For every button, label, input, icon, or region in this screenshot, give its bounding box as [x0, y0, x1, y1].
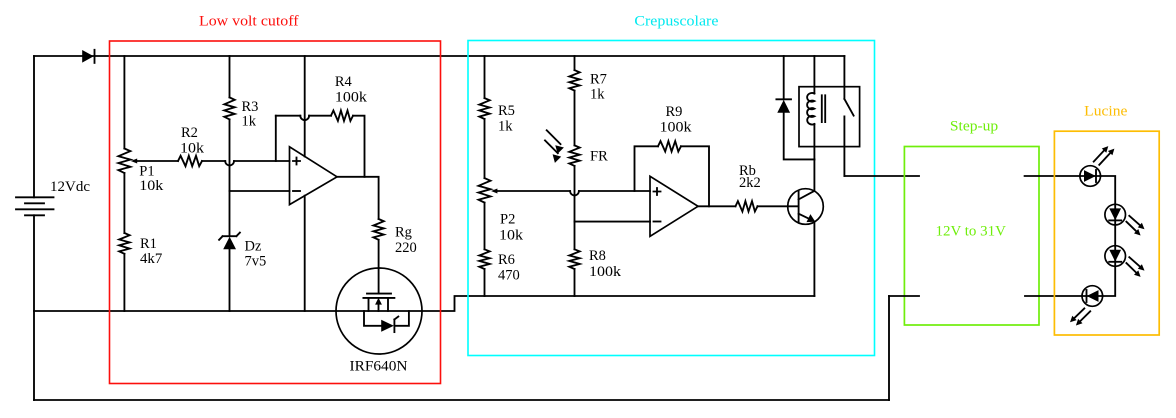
svg-text:4k7: 4k7: [140, 251, 162, 267]
svg-text:12Vdc: 12Vdc: [50, 179, 90, 195]
wire R5 to P2: [484, 119, 486, 178]
transistor M1 IRF640N: [336, 268, 422, 375]
svg-text:Low volt cutoff: Low volt cutoff: [199, 13, 299, 29]
svg-text:2k2: 2k2: [739, 175, 761, 191]
photoresistor FR: [545, 130, 608, 166]
resistor R2: [178, 125, 205, 166]
svg-text:IRF640N: IRF640N: [350, 359, 409, 375]
wire U2 output: [698, 205, 736, 207]
wire step-up return drop: [888, 296, 890, 400]
resistor R1: [119, 233, 162, 267]
wire Dz bottom lead: [229, 249, 231, 311]
wire LD2 to LD3: [1114, 225, 1116, 246]
svg-text:10k: 10k: [180, 141, 205, 157]
svg-text:7v5: 7v5: [245, 254, 267, 270]
wire inverting input node: [230, 190, 290, 192]
svg-text:R6: R6: [498, 252, 515, 268]
resistor R7: [569, 70, 607, 102]
block Step-up: [904, 147, 1039, 326]
resistor R9: [658, 104, 692, 152]
wire R2 to opamp noninverting input with hop: [202, 160, 290, 162]
transistor Q1: [788, 189, 824, 225]
wire R4 left segment with hop: [276, 115, 331, 117]
wire P2 wiper to opamp with hop: [496, 190, 650, 192]
resistor R5: [479, 98, 515, 134]
op-amp U2: [650, 176, 698, 236]
wire top supply bus: [34, 55, 844, 57]
block Crepuscolare: [468, 41, 875, 356]
potentiometer P1: [118, 149, 164, 195]
wire R7 top lead: [574, 56, 576, 70]
wire LD3 to LD4: [1103, 266, 1116, 296]
wire U1 positive supply: [304, 56, 306, 156]
wire collector lead: [813, 159, 815, 191]
wire U1 negative supply: [304, 196, 306, 311]
svg-text:FR: FR: [590, 148, 608, 164]
resistor Rb: [736, 163, 761, 212]
svg-text:1k: 1k: [590, 87, 605, 103]
wire R3 top lead: [229, 56, 231, 97]
wire relay output: [844, 175, 919, 177]
svg-text:220: 220: [395, 240, 417, 256]
wire battery positive lead: [33, 56, 35, 197]
block Low volt cutoff: [110, 41, 441, 384]
zener Dz: [219, 233, 266, 270]
wire P1 top lead: [123, 56, 125, 149]
wire R9 feedback tap: [635, 146, 659, 191]
svg-text:R5: R5: [498, 103, 515, 119]
wire R7 to FR: [574, 91, 576, 146]
resistor R3: [224, 97, 258, 129]
relay K1: [799, 56, 860, 176]
wire R8 bottom lead: [574, 269, 576, 296]
svg-text:1k: 1k: [498, 119, 513, 135]
wire LD1 to LD2: [1101, 176, 1116, 204]
svg-text:R7: R7: [590, 72, 607, 88]
potentiometer P2: [479, 178, 524, 243]
svg-text:P1: P1: [139, 164, 154, 180]
wire R4 right leg: [353, 116, 365, 177]
wire P1 to R1: [123, 173, 125, 233]
svg-text:1k: 1k: [242, 114, 257, 130]
LED LD3: [1105, 246, 1145, 277]
wire emitter lead: [813, 222, 815, 296]
svg-text:Rg: Rg: [395, 225, 412, 241]
svg-text:10k: 10k: [499, 228, 524, 244]
resistor Rg: [373, 219, 416, 256]
svg-text:100k: 100k: [660, 120, 693, 136]
svg-text:Dz: Dz: [245, 239, 262, 255]
wire bottom return rail: [34, 399, 889, 401]
LED LD2: [1105, 204, 1145, 235]
wire R5 top lead: [484, 56, 486, 98]
wire ground bus: [34, 296, 814, 311]
diode D1: [82, 50, 94, 63]
svg-text:470: 470: [498, 268, 520, 284]
svg-text:10k: 10k: [139, 178, 164, 194]
diode D2 flyback: [776, 56, 814, 159]
wire inverting input row: [575, 221, 651, 223]
wire feedback tap: [275, 116, 277, 161]
wire battery negative lead: [33, 215, 35, 400]
wire base lead: [758, 205, 798, 207]
svg-text:P2: P2: [500, 212, 515, 228]
resistor R6: [479, 249, 519, 283]
svg-text:100k: 100k: [335, 89, 368, 105]
wire P2 to R6: [484, 203, 486, 250]
wire R9 right leg: [681, 146, 709, 206]
LED LD4: [1070, 286, 1103, 326]
svg-text:R4: R4: [335, 74, 353, 90]
svg-text:Crepuscolare: Crepuscolare: [634, 13, 718, 29]
wire U1 output: [337, 177, 379, 219]
svg-text:R8: R8: [589, 248, 606, 264]
wire R3 to Dz node: [229, 119, 231, 236]
wire gate lead: [378, 240, 380, 294]
wire FR to inverting node: [574, 166, 576, 222]
svg-text:R1: R1: [140, 236, 157, 252]
wire step-up top output stub: [1025, 175, 1080, 177]
svg-text:R2: R2: [181, 125, 198, 141]
LED LD1: [1080, 146, 1115, 186]
resistor R4: [331, 74, 368, 121]
op-amp U1: [290, 147, 338, 205]
wire R6 bottom lead: [484, 269, 486, 296]
svg-text:12V to 31V: 12V to 31V: [936, 224, 1007, 240]
wire P1 wiper: [136, 160, 178, 162]
svg-text:100k: 100k: [589, 264, 622, 280]
block Lucine: [1054, 131, 1159, 335]
battery 12Vdc: [16, 179, 90, 216]
svg-text:R9: R9: [666, 104, 683, 120]
resistor R8: [569, 248, 622, 280]
wire node to R8: [574, 222, 576, 250]
svg-text:Step-up: Step-up: [950, 118, 998, 134]
wire R1 bottom lead: [123, 254, 125, 311]
svg-text:Lucine: Lucine: [1084, 104, 1127, 120]
wire step-up bottom input stub: [889, 295, 919, 297]
wire step-up bottom output stub: [1025, 295, 1082, 297]
